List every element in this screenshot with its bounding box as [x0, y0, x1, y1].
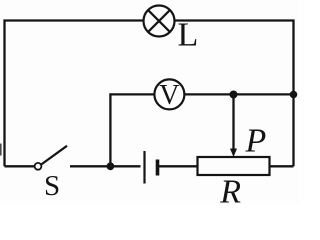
svg-text:L: L — [178, 17, 199, 54]
svg-text:S: S — [44, 170, 60, 202]
svg-text:P: P — [245, 123, 267, 160]
svg-text:R: R — [219, 174, 241, 205]
svg-text:V: V — [159, 80, 179, 111]
